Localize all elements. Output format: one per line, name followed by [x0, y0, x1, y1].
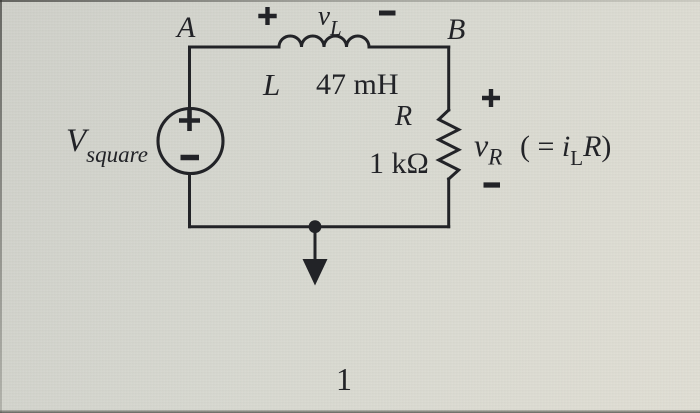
plus sign polarity vR top — [482, 89, 500, 107]
minus sign polarity vL right — [379, 11, 396, 16]
minus sign polarity vR bottom — [484, 182, 501, 187]
voltage source Vsquare circle — [158, 109, 223, 174]
svg-text:( = iLR): ( = iLR) — [520, 130, 611, 170]
wire top-left segment A to inductor — [190, 46, 280, 49]
resistor R1 zigzag — [439, 110, 459, 179]
svg-text:vL: vL — [318, 1, 342, 41]
svg-text:1: 1 — [336, 361, 352, 397]
wire bottom horizontal — [190, 225, 449, 228]
ground stem wire — [314, 227, 317, 260]
wire top-right segment inductor to B — [369, 46, 449, 49]
wire right vertical upper (B to resistor) — [447, 47, 450, 110]
plus sign inside source — [179, 110, 200, 131]
svg-text:vR: vR — [474, 127, 502, 170]
svg-text:L: L — [262, 67, 280, 102]
wire left vertical lower (source to bottom) — [188, 174, 191, 227]
svg-text:47 mH: 47 mH — [316, 68, 399, 101]
svg-text:Vsquare: Vsquare — [66, 123, 148, 167]
svg-text:R: R — [394, 101, 412, 132]
inductor L1 coil — [279, 36, 369, 47]
minus sign inside source — [181, 155, 200, 161]
plus sign polarity vL left — [258, 7, 276, 25]
ground arrow triangle — [303, 259, 328, 286]
wire right vertical lower (resistor to bottom) — [447, 179, 450, 227]
svg-text:A: A — [175, 11, 196, 44]
junction node dot — [309, 220, 322, 233]
svg-text:B: B — [447, 13, 465, 46]
svg-text:1 kΩ: 1 kΩ — [369, 147, 429, 180]
wire left vertical upper (A to source) — [188, 47, 191, 108]
